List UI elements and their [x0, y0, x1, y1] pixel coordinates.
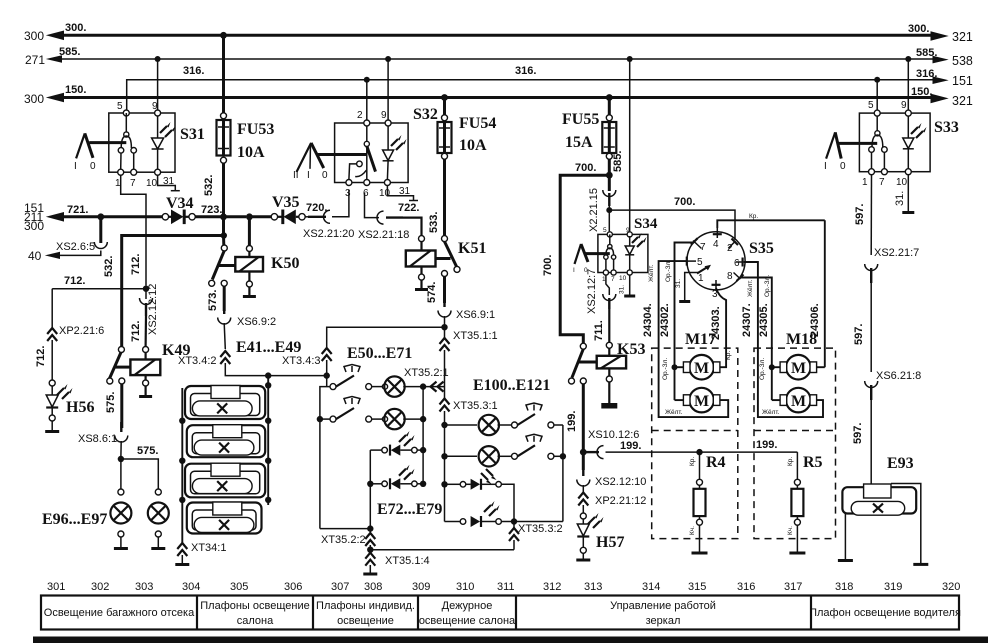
svg-text:E100..E121: E100..E121	[473, 377, 550, 394]
svg-text:300: 300	[24, 92, 44, 106]
svg-text:301: 301	[47, 581, 65, 593]
S35 pin 2	[727, 239, 738, 255]
svg-text:XS2.12:7: XS2.12:7	[586, 269, 598, 314]
svg-text:573.: 573.	[207, 290, 219, 311]
wire 721 to V35	[249, 215, 271, 218]
fuse FU54 10A	[428, 98, 496, 236]
svg-text:M17: M17	[685, 331, 716, 348]
lamp module E41 unit1	[185, 386, 265, 420]
relay K50	[209, 217, 300, 297]
node XS10.12:6	[580, 449, 587, 456]
connector XS10.12:6 and 199 line	[586, 429, 797, 459]
wire 40	[28, 249, 101, 263]
svg-text:306: 306	[284, 581, 302, 593]
wire bus 150 (fourth line)	[24, 84, 973, 108]
wire 712 from S31 pin1	[121, 175, 146, 285]
diode V35	[271, 194, 305, 224]
svg-text:308: 308	[364, 581, 382, 593]
connector XS2.12:10	[577, 466, 647, 493]
motor M18 lower	[780, 388, 817, 413]
node 712 split	[143, 286, 149, 292]
svg-text:K51: K51	[458, 240, 486, 257]
relay K51	[406, 236, 487, 290]
svg-text:H57: H57	[596, 534, 624, 551]
joint XT3.4:2	[178, 351, 327, 376]
svg-text:Жёлт.: Жёлт.	[648, 264, 655, 282]
svg-text:310: 310	[456, 581, 474, 593]
svg-text:24307.: 24307.	[741, 303, 753, 337]
svg-text:0: 0	[90, 161, 96, 172]
svg-text:2: 2	[727, 243, 733, 254]
svg-text:I: I	[307, 170, 310, 181]
svg-text:Кр.: Кр.	[749, 213, 758, 220]
E72 left bus	[367, 450, 373, 528]
svg-text:XS2.21:18: XS2.21:18	[358, 229, 409, 241]
wire 574 / connector XS6.9:1	[426, 277, 495, 328]
svg-text:XP2.21:12: XP2.21:12	[595, 495, 646, 507]
joint XT35.3:2	[509, 522, 563, 550]
legend cell 3 text	[316, 600, 415, 627]
svg-text:304: 304	[182, 581, 200, 593]
LED H56	[45, 380, 94, 432]
node E100 row1	[441, 422, 447, 428]
switch S34	[598, 216, 658, 283]
svg-text:321: 321	[952, 30, 973, 44]
svg-text:E41...E49: E41...E49	[236, 339, 301, 356]
svg-text:XT35.3:2: XT35.3:2	[518, 523, 563, 535]
node on 316 bus for S32 pin2	[364, 77, 370, 83]
svg-text:302: 302	[91, 581, 109, 593]
svg-text:10: 10	[379, 188, 391, 199]
svg-text:31.: 31.	[894, 191, 906, 206]
svg-text:313: 313	[584, 581, 602, 593]
S31 pin31 ground bracket	[158, 175, 180, 191]
E100 lamp row1	[445, 403, 563, 435]
lamps E96...E97	[42, 445, 169, 549]
svg-text:XT35.2:2: XT35.2:2	[321, 534, 366, 546]
svg-text:Плафон освещение водителя: Плафон освещение водителя	[809, 607, 961, 619]
svg-text:24304.: 24304.	[642, 303, 654, 337]
svg-text:3: 3	[345, 188, 351, 199]
svg-text:5: 5	[868, 100, 874, 111]
svg-text:10A: 10A	[237, 144, 265, 161]
svg-text:151: 151	[952, 74, 973, 88]
svg-text:585.: 585.	[916, 47, 937, 59]
svg-text:M: M	[694, 360, 709, 377]
svg-text:316.: 316.	[183, 65, 204, 77]
connector XP2.21:12	[578, 493, 646, 514]
lamp module E93	[842, 455, 916, 515]
legend cell 4 text	[419, 600, 516, 627]
wire bus 585 (second line)	[25, 46, 973, 68]
svg-text:XS6.9:2: XS6.9:2	[237, 316, 276, 328]
svg-text:Жёлт.: Жёлт.	[665, 409, 683, 416]
wire S31 pin9 riser	[157, 59, 159, 110]
svg-text:585.: 585.	[59, 46, 80, 58]
svg-text:6: 6	[734, 258, 740, 269]
svg-text:Кч.: Кч.	[689, 526, 696, 535]
legend cell 2 text	[200, 600, 309, 627]
svg-text:150.: 150.	[65, 84, 86, 96]
svg-text:597.: 597.	[852, 423, 864, 444]
node E41 bus feed	[265, 372, 271, 378]
dashed box mirror M17 assembly	[652, 331, 738, 539]
svg-text:Плафоны освещение: Плафоны освещение	[200, 600, 309, 612]
node row E72 r1	[420, 447, 426, 453]
svg-text:700.: 700.	[575, 162, 596, 174]
wire bus 300 (top line)	[24, 22, 973, 44]
legend table frame	[41, 596, 959, 630]
S34 lever	[573, 244, 610, 274]
E50 switch 1	[330, 365, 372, 390]
node K50 coil feed	[246, 213, 253, 220]
fuse FU55 15A	[562, 98, 616, 192]
svg-text:305: 305	[230, 581, 248, 593]
svg-text:XS2.12:12: XS2.12:12	[147, 284, 159, 335]
svg-text:K50: K50	[271, 255, 299, 272]
relay K53	[569, 341, 646, 409]
svg-text:R4: R4	[706, 454, 726, 471]
svg-text:I: I	[74, 161, 77, 172]
svg-text:1: 1	[698, 273, 704, 284]
connector S35	[687, 232, 774, 290]
wire 597 from S33 pin1	[854, 175, 872, 255]
svg-text:XT35.2:1: XT35.2:1	[404, 367, 449, 379]
svg-text:700.: 700.	[674, 196, 695, 208]
wire to K50 area	[224, 215, 247, 218]
svg-text:8: 8	[727, 271, 733, 282]
svg-text:314: 314	[642, 581, 660, 593]
svg-text:300: 300	[24, 29, 44, 43]
connector XS2.21:18 with wire 722	[358, 193, 422, 241]
LED row E72 r2	[370, 465, 423, 490]
wire S33 pin5 riser	[876, 80, 878, 110]
wire bus 316 (third line)	[127, 65, 973, 113]
svg-text:40: 40	[28, 249, 42, 263]
node R4 feed	[696, 449, 702, 455]
E100 right bus	[562, 425, 564, 522]
wire E50 bottom link	[320, 525, 374, 531]
S35 pin 6	[734, 258, 758, 349]
node E100 row3	[441, 481, 447, 487]
svg-text:R5: R5	[803, 454, 823, 471]
node row4	[511, 518, 517, 524]
node 700 thin branch	[606, 207, 612, 213]
svg-text:300.: 300.	[908, 23, 929, 35]
svg-text:10: 10	[146, 178, 158, 189]
resistor R5	[787, 452, 823, 553]
svg-text:300: 300	[24, 219, 44, 233]
svg-text:15A: 15A	[565, 134, 593, 151]
joint XT35.2:2	[321, 529, 375, 550]
svg-text:XS2.21:20: XS2.21:20	[303, 228, 354, 240]
svg-text:XT35.1:4: XT35.1:4	[385, 555, 430, 567]
svg-text:309: 309	[412, 581, 430, 593]
node junction at XS2.6:5	[97, 213, 104, 220]
connector XS2.6:5	[56, 217, 107, 253]
svg-text:I: I	[824, 161, 827, 172]
svg-text:199.: 199.	[566, 411, 578, 432]
svg-text:Дежурное: Дежурное	[442, 600, 493, 612]
svg-text:199.: 199.	[756, 439, 777, 451]
svg-text:31.: 31.	[675, 279, 682, 288]
svg-text:XS2.21:7: XS2.21:7	[874, 247, 919, 259]
svg-text:II: II	[293, 170, 299, 181]
S31 lever I/0	[74, 133, 126, 172]
svg-text:X2.21.15: X2.21.15	[588, 188, 600, 232]
wire 575 / connector XS8.6:1	[78, 384, 128, 456]
svg-text:597.: 597.	[853, 324, 865, 345]
relay K49	[107, 342, 191, 397]
bottom coordinate numbers	[47, 581, 960, 593]
S35 pin 1 wiper	[675, 265, 711, 302]
svg-text:S35: S35	[749, 240, 774, 257]
motor M17 lower	[683, 388, 719, 413]
svg-text:S34: S34	[634, 216, 658, 232]
svg-text:532.: 532.	[103, 256, 115, 277]
wire labels 24304/24302/24303	[642, 260, 732, 360]
svg-text:E93: E93	[887, 455, 914, 472]
svg-text:E72...E79: E72...E79	[377, 501, 442, 518]
svg-text:271: 271	[25, 53, 45, 67]
svg-text:532.: 532.	[203, 175, 215, 196]
svg-text:Освещение багажного отсека: Освещение багажного отсека	[44, 607, 195, 619]
svg-text:723.: 723.	[201, 204, 222, 216]
svg-text:150.: 150.	[911, 86, 932, 98]
fuse FU53 10A	[203, 35, 274, 217]
svg-text:XP2.21:6: XP2.21:6	[59, 325, 104, 337]
svg-text:XS6.21:8: XS6.21:8	[876, 370, 921, 382]
svg-text:V34: V34	[166, 195, 194, 212]
svg-text:10A: 10A	[459, 137, 487, 154]
LED H57	[576, 513, 624, 560]
connector XS6.21:8	[852, 370, 921, 487]
E100 diode row4	[445, 501, 563, 527]
S35 pin 4	[713, 213, 825, 250]
svg-text:Кр.: Кр.	[689, 457, 696, 466]
node on 150 bus for FU55	[606, 94, 613, 101]
svg-text:24302.: 24302.	[659, 303, 671, 337]
node 700 branch	[606, 172, 613, 179]
wire 24306 riser	[824, 220, 826, 367]
svg-text:585.: 585.	[612, 151, 624, 172]
svg-text:700.: 700.	[542, 255, 554, 276]
svg-text:Управление работой: Управление работой	[610, 600, 716, 612]
svg-text:S33: S33	[934, 119, 959, 136]
svg-text:Ор.-Зл.: Ор.-Зл.	[662, 358, 669, 380]
lamp module E41 unit4	[187, 502, 262, 534]
legend cell 5 text	[610, 600, 716, 627]
svg-text:315: 315	[688, 581, 706, 593]
dashed box mirror M18 assembly	[754, 331, 836, 539]
svg-text:300.: 300.	[65, 22, 86, 34]
svg-text:Кч.: Кч.	[787, 526, 794, 535]
svg-text:2: 2	[357, 110, 363, 121]
E100 lamp row2	[445, 434, 563, 484]
S34 pin10 ground 31	[619, 275, 636, 296]
resistor R4	[689, 452, 726, 553]
svg-text:XS2.12:10: XS2.12:10	[595, 476, 646, 488]
svg-text:312: 312	[543, 581, 561, 593]
wire 585 riser to S34 pin9	[612, 56, 633, 231]
svg-text:E50...E71: E50...E71	[347, 345, 412, 362]
svg-text:M: M	[791, 393, 806, 410]
svg-text:7: 7	[130, 178, 136, 189]
connector X2.21.15	[588, 188, 616, 232]
joint XT34:1	[175, 542, 226, 565]
svg-text:7: 7	[611, 276, 615, 283]
svg-text:FU53: FU53	[237, 121, 274, 138]
E93 left ground	[838, 514, 853, 561]
wire 532 branch to K49 contact	[103, 217, 227, 346]
E41 right bus	[265, 376, 271, 505]
wire 712 horizontal to H56	[52, 275, 146, 289]
node XT3.4:3 riser	[324, 372, 330, 378]
svg-text:K49: K49	[162, 342, 190, 359]
wire 700 thick loop to K53	[542, 162, 609, 343]
svg-text:319: 319	[884, 581, 902, 593]
svg-text:H56: H56	[66, 399, 94, 416]
svg-text:575.: 575.	[105, 392, 117, 413]
svg-text:FU55: FU55	[562, 111, 599, 128]
svg-text:1: 1	[862, 177, 868, 188]
E93 right return wire to ground	[891, 484, 928, 565]
node lamp2 to bus	[420, 416, 426, 422]
svg-text:V35: V35	[272, 194, 300, 211]
node row2 right	[560, 453, 566, 459]
node E100 row2	[441, 453, 447, 459]
joint XT35.1:4 with ground	[363, 553, 429, 574]
svg-text:XS8.6:1: XS8.6:1	[78, 433, 117, 445]
svg-text:721.: 721.	[67, 204, 88, 216]
svg-text:M: M	[791, 360, 806, 377]
E41 left bus	[179, 388, 185, 543]
svg-text:XS6.9:1: XS6.9:1	[456, 309, 495, 321]
connector XS2.21:7	[853, 247, 919, 372]
svg-text:720.: 720.	[306, 202, 327, 214]
svg-text:E96...E97: E96...E97	[42, 511, 107, 528]
node on 150 bus for FU54	[441, 94, 448, 101]
svg-text:M: M	[694, 393, 709, 410]
svg-text:712.: 712.	[35, 346, 47, 367]
svg-text:574.: 574.	[426, 282, 438, 303]
node lamp1 to bus	[420, 383, 426, 389]
svg-text:318: 318	[835, 581, 853, 593]
svg-text:Ор.-Зл.: Ор.-Зл.	[665, 260, 672, 282]
E50 switch 2	[330, 397, 372, 423]
S32 lever II/I/0	[293, 143, 367, 181]
joint XT35.3:1	[440, 399, 498, 522]
M17 internal wiring	[659, 348, 729, 417]
node on 316 bus for S33 pin5	[874, 77, 880, 83]
wire S32 pin2 riser	[366, 80, 368, 120]
svg-text:XS2.6:5: XS2.6:5	[56, 241, 95, 253]
svg-text:Ор.-Зл.: Ор.-Зл.	[764, 275, 771, 297]
svg-text:10: 10	[896, 177, 908, 188]
E50 lamp 1	[372, 376, 420, 396]
motor M18 upper	[780, 355, 817, 380]
svg-text:освещение: освещение	[337, 615, 394, 627]
connector XP2.21:6	[35, 289, 104, 380]
S35 pin 3	[712, 280, 727, 348]
svg-text:316: 316	[737, 581, 755, 593]
S33 lever I/0	[824, 132, 877, 172]
svg-text:Жёлт.: Жёлт.	[762, 409, 780, 416]
motor M17 upper	[683, 355, 719, 380]
svg-text:зеркал: зеркал	[646, 615, 681, 627]
svg-text:0: 0	[840, 161, 846, 172]
svg-text:7: 7	[700, 242, 706, 253]
svg-text:199.: 199.	[620, 440, 641, 452]
svg-text:9: 9	[901, 100, 907, 111]
svg-text:M18: M18	[786, 331, 817, 348]
svg-text:538: 538	[952, 54, 973, 68]
svg-text:316.: 316.	[515, 65, 536, 77]
connector XS2.12:7 and wire 711	[586, 269, 616, 343]
svg-text:5: 5	[117, 101, 123, 112]
node on 585 bus for S31 pin9	[155, 56, 161, 62]
svg-text:XT35.1:1: XT35.1:1	[453, 330, 498, 342]
S35 pin 5	[659, 257, 703, 348]
svg-text:9: 9	[381, 110, 387, 121]
wire 700 thin to S35 pin2	[609, 196, 735, 240]
svg-text:салона: салона	[237, 615, 274, 627]
node XT35.1:1 feed	[441, 324, 447, 330]
svg-text:307: 307	[331, 581, 349, 593]
E50 left bus	[317, 387, 330, 529]
node XT35.1:4	[367, 547, 373, 553]
svg-text:24305.: 24305.	[758, 303, 770, 337]
svg-text:S32: S32	[413, 106, 438, 123]
svg-text:5: 5	[603, 227, 607, 234]
wire 721 main horizontal	[24, 201, 165, 233]
S35 pin 7	[675, 238, 707, 348]
node 721/FU53 junction	[220, 213, 227, 220]
wire 199 thick	[566, 384, 583, 470]
switch S32	[335, 106, 438, 201]
svg-text:316.: 316.	[916, 68, 937, 80]
svg-text:712.: 712.	[64, 275, 85, 287]
svg-text:31.: 31.	[619, 285, 626, 294]
svg-text:FU54: FU54	[459, 115, 496, 132]
svg-text:575.: 575.	[137, 445, 158, 457]
connector XS2.12:12	[130, 284, 159, 347]
node on 585 bus for S33 pin9	[905, 56, 911, 62]
svg-text:XT34:1: XT34:1	[191, 542, 226, 554]
E100 diode row3	[445, 479, 515, 522]
svg-text:6: 6	[363, 188, 369, 199]
node on 585 bus for S32 pin9	[385, 56, 391, 62]
svg-text:7: 7	[879, 177, 885, 188]
lamp module E41 unit3	[185, 463, 265, 497]
svg-text:597.: 597.	[854, 204, 866, 225]
joint XT35.2:1	[404, 367, 449, 392]
joint XT3.4:3	[282, 327, 444, 386]
M18 internal wiring	[758, 348, 825, 417]
lamp module E41 unit2	[187, 425, 265, 458]
node on 300 bus for FU53	[220, 32, 227, 39]
E50 right bus	[422, 387, 424, 484]
diode V34	[162, 195, 223, 224]
svg-text:533.: 533.	[428, 212, 440, 233]
svg-text:5: 5	[697, 257, 703, 268]
svg-text:712.: 712.	[130, 321, 142, 342]
svg-text:10: 10	[619, 275, 627, 282]
svg-text:S31: S31	[180, 126, 205, 143]
switch S31	[109, 101, 205, 189]
svg-text:722.: 722.	[398, 202, 419, 214]
wire S33 pin9 riser	[907, 59, 909, 110]
